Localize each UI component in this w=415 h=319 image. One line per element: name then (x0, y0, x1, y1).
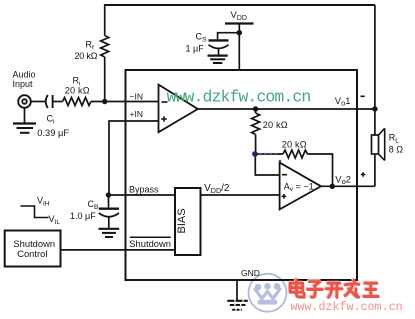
svg-text:BIAS: BIAS (176, 208, 188, 233)
svg-text:8 Ω: 8 Ω (389, 145, 404, 155)
svg-text:Bypass: Bypass (129, 185, 159, 195)
svg-text:0.39 μF: 0.39 μF (37, 128, 69, 138)
svg-text:Av = −1: Av = −1 (284, 182, 314, 194)
svg-text:20 kΩ: 20 kΩ (65, 86, 90, 96)
svg-text:1 μF: 1 μF (186, 44, 205, 54)
svg-text:20 kΩ: 20 kΩ (282, 140, 307, 150)
svg-text:www.dzkfw.com.cn: www.dzkfw.com.cn (290, 300, 402, 314)
svg-text:Control: Control (17, 248, 47, 259)
svg-text:Input: Input (13, 79, 34, 89)
svg-text:Audio: Audio (13, 70, 36, 80)
svg-text:www.dzkfw.com.cn: www.dzkfw.com.cn (167, 88, 311, 107)
svg-text:20 kΩ: 20 kΩ (75, 51, 98, 61)
svg-text:1.0 μF: 1.0 μF (70, 211, 96, 221)
svg-text:GND: GND (241, 268, 260, 278)
svg-text:+IN: +IN (130, 109, 143, 119)
svg-text:−IN: −IN (130, 92, 143, 102)
svg-text:20 kΩ: 20 kΩ (263, 120, 288, 130)
svg-text:Shutdown: Shutdown (129, 238, 171, 249)
